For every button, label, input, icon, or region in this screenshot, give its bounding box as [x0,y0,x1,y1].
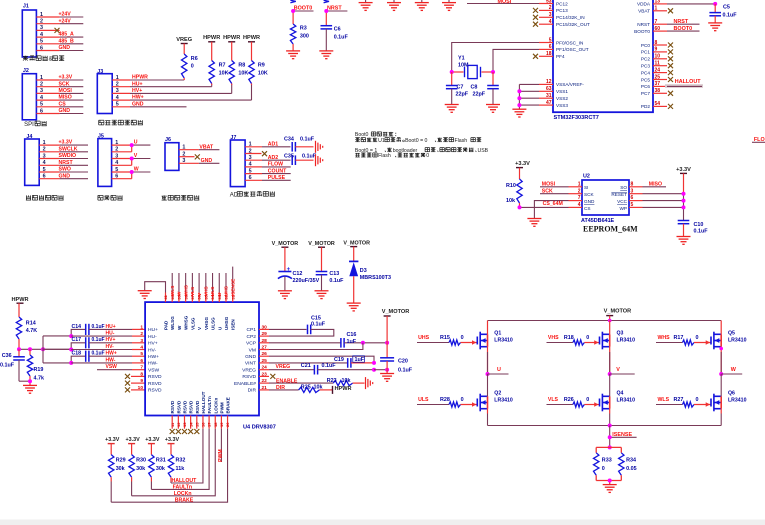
svg-text:Y1: Y1 [458,56,465,62]
svg-text:U4 DRV8307: U4 DRV8307 [243,425,276,431]
wire U4 ENABLE [269,378,333,384]
svg-text:R33: R33 [602,457,612,463]
wire U1 pin5 to crystal [452,43,539,73]
resistor R26 0 [573,402,599,407]
svg-text:D3: D3 [360,268,367,274]
svg-text:VLSG: VLSG [190,317,195,330]
svg-text:FLOW: FLOW [268,162,283,168]
svg-text:R14: R14 [26,321,36,327]
gate arrow Q5 [706,340,710,344]
J2 pin 1 [40,75,43,81]
svg-text:0.1uF: 0.1uF [329,278,344,284]
svg-text:COUNT: COUNT [268,168,287,174]
U4 top pin 33 U [217,293,222,331]
U1 pin 25 PC5 [641,74,673,82]
ground for shunt [603,485,617,493]
transistor Q6 LR3410 [711,374,747,411]
wire net BOOT0 to U1 pin 60 [667,26,700,32]
svg-text:LOCKn: LOCKn [213,397,218,413]
wire net BRAKE (U4) [111,429,227,504]
J3 pin 4 [116,95,119,101]
U4 bottom pin 11 RSVD [170,400,175,429]
wire net WLS gate row [656,397,699,405]
junction R19 bottom [28,379,32,383]
wire U4 VINT [269,362,348,364]
svg-text:3: 3 [140,338,143,344]
wire J5 net V [112,153,151,165]
U4 pin 23 RSVD [242,371,269,380]
svg-text:LR3410: LR3410 [494,397,513,403]
svg-text:ISENSE: ISENSE [612,432,632,438]
svg-text:RSVD: RSVD [195,400,200,413]
svg-text:CP1: CP1 [246,327,256,333]
svg-text:VM: VM [249,347,256,353]
wire Q2 source to rail [487,409,489,426]
U4 top pin 34 ULSG [210,293,215,331]
svg-text:C36: C36 [2,353,12,359]
svg-text:C7: C7 [457,84,464,90]
wire J4 pin 1 [39,140,88,146]
junction NRST [324,9,328,13]
svg-text:LR3410: LR3410 [617,397,636,403]
svg-text:6: 6 [631,195,634,201]
transistor Q1 LR3410 [477,321,513,350]
gate arrow Q1 [472,340,476,344]
svg-text:38: 38 [655,88,661,94]
svg-text:Flash: Flash [378,153,391,159]
svg-text:HPWR: HPWR [132,75,148,81]
svg-text:12: 12 [546,79,552,85]
J7 pin 1 [249,142,252,148]
wire J2 pin 1 [36,75,83,81]
svg-text:22pF: 22pF [456,92,469,98]
svg-text:WHSG: WHSG [184,315,189,330]
svg-text:C6: C6 [334,26,341,32]
svg-text:VSW: VSW [148,368,160,374]
ground for U4 PAD [138,291,152,299]
connector J6 [165,137,179,171]
junction rail gnd [385,368,389,372]
svg-text:2: 2 [140,331,143,337]
power port VREG [176,37,192,54]
J7 pin 5 [249,168,252,174]
wire J3 pin 3 net HV+ [112,85,232,95]
U4 pin 29 CP2 [246,331,269,340]
junction J5 W [130,170,134,174]
junction BOOT0 [291,9,295,13]
wire net HALLOUT to U1 pin 37 [665,79,703,88]
svg-text:C20: C20 [398,359,408,365]
svg-text:C10: C10 [694,222,704,228]
wire J1 pin 3 [36,29,59,31]
U1 pin 54 PD2 [641,101,673,109]
svg-text:9: 9 [140,378,143,384]
svg-text:WLS: WLS [658,397,670,403]
junction rail V [608,319,612,323]
svg-text:J1: J1 [23,4,29,10]
capacitor C10 0.1uF [678,221,709,237]
U1 pin 2 PC13 [533,5,568,13]
svg-text:VREG: VREG [176,37,192,43]
wire net ULS gate row [417,397,464,405]
U4 pin 26 GND [245,351,269,360]
svg-text:CS: CS [59,101,67,107]
J5 pin 6 [115,174,118,180]
svg-text:UHSG: UHSG [224,316,229,330]
resistor R3 300 [290,24,309,51]
junction R10 CS [518,205,522,209]
svg-text:PF0/OSC_IN: PF0/OSC_IN [556,40,583,45]
svg-text:SO: SO [620,185,627,190]
junction phase W [719,372,723,376]
wire net FAULTn (U4) [151,429,209,491]
svg-text:WLS: WLS [170,286,175,296]
U4 top pin 31 ISEN [230,293,235,331]
crystal Y1 10M [452,56,493,79]
svg-text:SI: SI [584,185,588,190]
U2 pin 4 [569,202,583,208]
svg-text:485_B: 485_B [59,38,75,44]
capacitor C21 0.1uF [301,363,374,374]
svg-text:0.1uF: 0.1uF [311,322,326,328]
power port V_MOTOR (bridge) [604,309,632,321]
svg-text:ENABLE#: ENABLE# [234,381,256,387]
wire Q6 source to rail [720,409,722,426]
svg-text:PC5: PC5 [641,77,651,82]
svg-text:HU+: HU+ [106,324,116,330]
U4 top pin 36 V [197,293,202,331]
svg-text:R26: R26 [564,397,574,403]
J4 caption [26,195,64,200]
wire shunt box bottom [596,475,621,484]
U4 top pin 39 W [177,293,182,331]
resistor R17 0 [683,340,711,345]
junction C19 [372,361,376,365]
wire net MOSI to U1 pin 53 [467,0,539,5]
wire J4 pin 6 [39,173,88,179]
svg-text:+24V: +24V [59,12,72,18]
junction divider 1 [17,347,21,351]
J1 pin 3 [40,25,43,31]
capacitor C18 0.1uF [71,351,104,363]
power port +3.3V (R31) [145,437,160,454]
svg-text:BOOT0: BOOT0 [634,29,650,34]
U4 top pin 38 WHSG [183,293,188,331]
svg-text:R3: R3 [300,26,307,32]
partial resistor above BOOT0 [290,0,295,3]
no-connect U4 RSVD [125,381,145,386]
junction J5 U [130,143,134,147]
svg-text:BOOT0: BOOT0 [294,6,313,12]
U4 bottom pin 17 FAULTn [207,396,212,429]
ground (top edge) [415,0,429,10]
U1 pin 3 PC14/32K_IN [533,12,585,20]
wire net NRST to U1 pin 7 [667,19,700,25]
svg-text:0: 0 [696,335,699,341]
svg-text:PC15/32K_OUT: PC15/32K_OUT [556,22,590,27]
svg-text:SWCLK: SWCLK [59,146,78,152]
svg-text:PC2: PC2 [641,57,651,62]
junction C21 [372,368,376,372]
svg-text:NRST: NRST [637,22,650,27]
svg-text:0: 0 [191,63,194,69]
svg-text:HPWR: HPWR [203,35,220,41]
wire net V stub [197,273,202,296]
net label FLO (clipped) [752,137,765,143]
junction rail WP [682,205,686,209]
svg-text:DIR: DIR [276,385,285,391]
U4 top pin 32 UHSG [224,293,229,331]
svg-text:C14: C14 [72,324,82,330]
junction rail VCC [682,199,686,203]
junction crystal right [491,70,495,74]
ground for C35 [316,154,323,166]
wire J2 pin 2 [36,81,83,87]
svg-text:12: 12 [176,422,181,427]
U4 bottom pin 20 BRAKE [225,397,230,429]
power port HPWR [203,35,220,61]
wire net WLS stub [170,273,175,296]
wire U2 WP to +3.3V rail [643,206,684,208]
wire J1 pin 5 [36,38,83,44]
U2 pin 3 [629,188,643,194]
U1 pin 47 VSS3 [539,100,568,108]
wire U4 DIR [269,385,299,391]
resistor R18 0 [573,340,599,345]
svg-text:22pF: 22pF [473,92,486,98]
svg-text:HW+: HW+ [106,351,117,357]
net label NRST with wire [326,6,347,26]
J7 pin 6 [249,175,252,181]
note text Boot0 [355,132,489,159]
J4 pin 1 [43,140,46,146]
wire net HW+ to U4 [89,351,145,357]
U4 pin 2 HU- [140,331,157,340]
capacitor C6 0.1uF [321,26,349,51]
wire net ULS stub [210,273,215,296]
U1 pin 63 VSS1 [539,86,568,94]
J5 pin 5 [115,167,118,173]
J1 pin 4 [40,32,43,38]
svg-text:18: 18 [546,51,552,57]
U4 pin 7 VSW [140,365,159,374]
svg-text:PC4: PC4 [641,70,651,75]
U1 pin 31 VSS2 [539,93,568,101]
resistor R9 10K [249,61,268,86]
svg-text:7: 7 [578,195,581,201]
wire J2 pin 4 [36,95,83,101]
svg-text:13: 13 [655,0,661,5]
svg-text:DIR: DIR [248,388,257,394]
capacitor C15 0.1uF [269,315,334,336]
svg-text:U1: U1 [378,138,385,144]
wire J2 pin 5 [36,101,83,107]
wire rail to ground [386,370,388,374]
svg-text:C12: C12 [293,271,303,277]
resistor R32 11k [168,455,185,483]
svg-text:10: 10 [655,54,661,60]
bottom grey band [0,520,765,525]
svg-text:8: 8 [631,181,634,187]
svg-text:VHS: VHS [548,335,559,341]
wire J3 pin 5 net GND [112,101,186,107]
svg-text:V_MOTOR: V_MOTOR [382,309,410,315]
svg-text:ULS: ULS [418,397,429,403]
wire J4 pin 3 [39,153,88,159]
U1 pin 24 PC4 [641,67,673,75]
capacitor C19 1uF [334,356,374,368]
J1 pin 6 [40,45,43,51]
svg-text:HV-: HV- [148,347,157,353]
svg-text:6: 6 [140,358,143,364]
svg-text:VINT: VINT [245,361,256,367]
U1 pin 4 PC15/32K_OUT [533,19,590,27]
svg-text:RSVD: RSVD [176,400,181,413]
svg-text:VREG: VREG [276,364,291,370]
U1 pin 11 PC3 [641,61,673,69]
svg-text:BRAKE: BRAKE [226,397,231,413]
wire net WHS gate row [656,335,699,343]
svg-text:R6: R6 [191,56,198,62]
wire Q4 source to rail [609,409,611,426]
U4 top pin 37 VLSG [190,293,195,331]
junction rail RESET [682,192,686,196]
J5 pin 2 [115,147,118,153]
ground for U2 [527,219,541,227]
J1 caption [23,56,64,63]
ground for VSS [512,109,526,117]
svg-text:SCK: SCK [542,188,553,194]
svg-text:WHS: WHS [658,335,671,341]
power port V_MOTOR (D3) [343,240,370,261]
junction shunt top [608,445,612,449]
gate arrow Q4 [594,402,598,406]
svg-text:V_MOTOR: V_MOTOR [604,309,632,315]
svg-text:14: 14 [188,422,193,427]
U4 pin 22 ENABLE# [234,378,269,387]
J1 pin 5 [40,39,43,45]
resistor R27 0 [683,402,711,407]
J6 pin 3 [182,158,185,164]
svg-text:63: 63 [546,86,552,92]
svg-text:C17: C17 [72,337,82,343]
svg-text:0: 0 [696,397,699,403]
U2 pin 2 [569,188,583,194]
J5 caption [98,195,123,200]
svg-text:+3.3V: +3.3V [59,140,73,146]
svg-text:ISEN: ISEN [231,319,236,330]
wire J1 pin 6 [36,45,83,51]
U2 pin 8 [629,181,643,187]
wire hall minus bus [43,336,71,363]
svg-text:HPWR: HPWR [243,35,260,41]
U1 pin 12 VSSA/VREF- [539,79,584,87]
wire J2 pin 3 [36,88,83,94]
svg-text:FAULTn: FAULTn [173,485,193,491]
svg-text:1: 1 [655,6,658,12]
svg-text:GND: GND [59,108,71,114]
wire net SCK to U2 [540,188,569,194]
svg-text:4: 4 [578,202,581,208]
mcu U1 STM32F303RCT7 [553,0,653,121]
svg-text:Q2: Q2 [494,390,501,396]
resistor R28 0 [449,402,477,407]
resistor R10 10k [506,179,522,207]
U1 pin 8 PC0 [641,40,673,48]
svg-text:41: 41 [163,294,168,299]
svg-text:BRAKE: BRAKE [175,497,194,503]
svg-text:17: 17 [207,422,212,427]
svg-text:ULSG: ULSG [211,317,216,330]
svg-text:PC13: PC13 [556,8,568,13]
svg-text:0: 0 [426,153,429,159]
wire Q5 source to phase node [720,347,722,374]
svg-text:ENABLE: ENABLE [276,378,298,384]
gate arrow Q3 [594,340,598,344]
svg-text:HV+: HV+ [148,341,158,347]
U1 pin 13 VDDA [637,0,667,7]
no-connect U4 RSVD bottom [170,429,175,434]
svg-text:VDDA: VDDA [637,2,651,7]
wire V_MOTOR top rail [488,320,722,322]
wire Q3 source to phase node [609,347,611,374]
svg-text:10: 10 [138,385,144,391]
svg-text:MISO: MISO [649,181,662,187]
J2 pin 5 [40,102,43,108]
junction bottom rail V leg [608,424,612,428]
svg-text:10K: 10K [238,71,248,77]
no-connect U4 RSVD bottom [188,429,193,434]
J4 pin 4 [43,160,46,166]
svg-text:5: 5 [140,351,143,357]
svg-text:V: V [616,367,620,373]
svg-text:R9: R9 [258,62,265,68]
svg-text:0: 0 [602,466,605,472]
no-connect U4 RSVD [125,374,145,379]
wire net HV- to U4 [71,344,145,350]
junction VSS1 [517,89,521,93]
svg-text:0: 0 [586,335,589,341]
svg-text:VCC: VCC [617,199,628,204]
junction divider 3 [41,347,45,351]
svg-text:GND: GND [584,199,595,204]
J3 pin 1 [116,75,119,81]
power port +3.3V (R29) [105,437,120,454]
svg-text:53: 53 [546,0,552,4]
U1 pin 1 VBAT [638,6,673,14]
svg-text:30k: 30k [156,466,165,472]
svg-text:8: 8 [140,371,143,377]
U4 bottom pin 13 RSVD [182,400,187,429]
svg-text:SWDIO: SWDIO [59,153,77,159]
power port HPWR [223,35,240,61]
ground for R23 [366,377,373,389]
no-connect U4 RSVD bottom [194,429,199,434]
wire net CS_64M [520,201,569,207]
ground for C10 [677,237,691,245]
wire net V stub [610,367,635,374]
svg-text:RSVD: RSVD [148,381,162,387]
svg-text:U2: U2 [583,174,590,180]
svg-text:0.1uF: 0.1uF [322,363,337,369]
wire net VHS gate row [547,335,590,343]
svg-text:PC6: PC6 [641,84,651,89]
resistor R14 4.7K [16,317,37,349]
wire J3 pin 2 net HU+ [112,81,212,87]
U1 pin 7 NRST [637,19,667,27]
svg-text:PF4: PF4 [556,54,565,59]
resistor R30 30k [129,455,146,496]
